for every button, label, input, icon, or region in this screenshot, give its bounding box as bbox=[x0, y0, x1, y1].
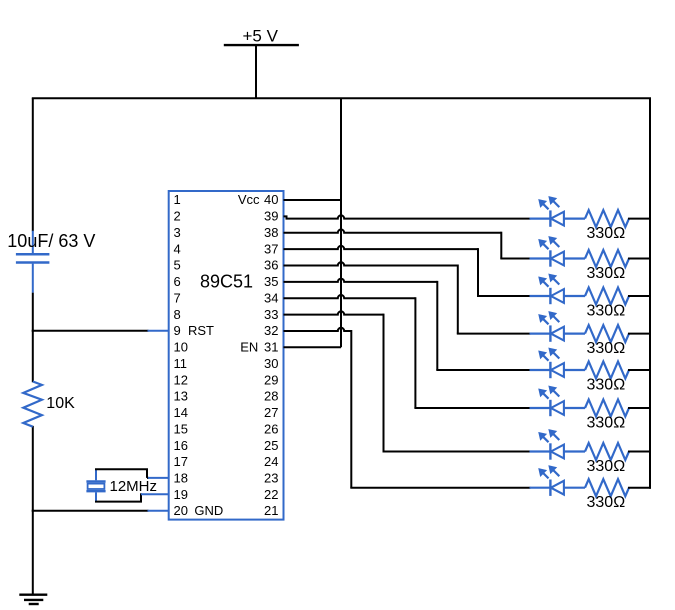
value label 330 ohm row 8 bbox=[587, 494, 626, 511]
wire pin 38 to LED D2 row bbox=[284, 229, 531, 258]
resistor R3 330 ohm bbox=[585, 288, 629, 305]
svg-text:3: 3 bbox=[174, 225, 181, 240]
svg-text:35: 35 bbox=[264, 274, 278, 289]
svg-text:330Ω: 330Ω bbox=[587, 303, 626, 320]
svg-text:25: 25 bbox=[264, 438, 278, 453]
svg-text:330Ω: 330Ω bbox=[587, 340, 626, 357]
wire left bus: rail to capacitor bbox=[32, 98, 34, 231]
svg-text:GND: GND bbox=[194, 503, 223, 518]
ground symbol bbox=[19, 595, 47, 604]
wire Vcc vertical (rail to EN) bbox=[340, 98, 342, 347]
resistor R7 330 ohm bbox=[585, 443, 629, 460]
svg-text:10uF/ 63 V: 10uF/ 63 V bbox=[7, 231, 95, 251]
value label 10uF/ 63 V bbox=[7, 231, 95, 251]
wire right bus (rail to row 8) bbox=[649, 98, 651, 489]
resistor R8 330 ohm bbox=[585, 479, 629, 496]
svg-text:28: 28 bbox=[264, 389, 278, 404]
wire resistor R8 to right bus bbox=[628, 487, 651, 489]
LED D6 bbox=[530, 386, 586, 416]
resistor R2 330 ohm bbox=[585, 250, 629, 267]
svg-text:12: 12 bbox=[174, 372, 188, 387]
svg-text:+5 V: +5 V bbox=[243, 27, 279, 46]
wire resistor R1 to right bus bbox=[628, 218, 651, 220]
power +5V symbol bbox=[224, 27, 299, 99]
svg-text:6: 6 bbox=[174, 274, 181, 289]
resistor R1 330 ohm bbox=[585, 210, 629, 227]
LED D7 bbox=[530, 430, 586, 460]
wire pin 36 to LED D4 row bbox=[284, 262, 531, 333]
svg-text:330Ω: 330Ω bbox=[587, 225, 626, 242]
svg-text:330Ω: 330Ω bbox=[587, 265, 626, 282]
svg-text:13: 13 bbox=[174, 389, 188, 404]
svg-text:37: 37 bbox=[264, 241, 278, 256]
wire resistor R7 to right bus bbox=[628, 451, 651, 453]
value label 330 ohm row 3 bbox=[587, 303, 626, 320]
U1 left pin numbers 1-20 bbox=[174, 192, 188, 518]
svg-text:31: 31 bbox=[264, 340, 278, 355]
svg-text:15: 15 bbox=[174, 421, 188, 436]
IC U1 89C51 body bbox=[169, 191, 284, 520]
svg-text:24: 24 bbox=[264, 454, 278, 469]
wire pin 35 to LED D5 row bbox=[284, 279, 531, 370]
LED D5 bbox=[530, 348, 586, 378]
value label 330 ohm row 4 bbox=[587, 340, 626, 357]
wire resistor R6 to right bus bbox=[628, 407, 651, 409]
wire resistor R3 to right bus bbox=[628, 295, 651, 297]
svg-text:19: 19 bbox=[174, 487, 188, 502]
svg-text:30: 30 bbox=[264, 356, 278, 371]
wire GND node to ground bbox=[32, 510, 34, 596]
wire pin 33 to LED D7 row bbox=[284, 311, 531, 451]
svg-text:4: 4 bbox=[174, 241, 181, 256]
svg-text:32: 32 bbox=[264, 323, 278, 338]
wire pin 39 to LED D1 row bbox=[284, 215, 531, 218]
wire pin 32 to LED D8 row bbox=[284, 328, 531, 488]
svg-text:36: 36 bbox=[264, 258, 278, 273]
wire resistor R2 to right bus bbox=[628, 258, 651, 260]
LED D3 bbox=[530, 274, 586, 304]
U1 pin label EN bbox=[240, 340, 258, 355]
value label 330 ohm row 2 bbox=[587, 265, 626, 282]
U1 pin label GND bbox=[194, 503, 223, 518]
wire +5V top rail bbox=[32, 97, 651, 99]
svg-text:16: 16 bbox=[174, 438, 188, 453]
svg-text:29: 29 bbox=[264, 372, 278, 387]
svg-text:330Ω: 330Ω bbox=[587, 415, 626, 432]
svg-text:26: 26 bbox=[264, 421, 278, 436]
svg-text:21: 21 bbox=[264, 503, 278, 518]
resistor R4 330 ohm bbox=[585, 325, 629, 342]
svg-text:39: 39 bbox=[264, 209, 278, 224]
svg-text:27: 27 bbox=[264, 405, 278, 420]
svg-text:10: 10 bbox=[174, 340, 188, 355]
svg-text:89C51: 89C51 bbox=[200, 272, 253, 292]
wire resistor R5 to right bus bbox=[628, 369, 651, 371]
wire crystal bottom to pin 19 bbox=[95, 494, 169, 501]
resistor R5 330 ohm bbox=[585, 362, 629, 379]
wire resistor 10K to GND node bbox=[32, 426, 34, 512]
svg-text:33: 33 bbox=[264, 307, 278, 322]
wire GND node to pin 20 bbox=[32, 510, 169, 512]
svg-text:1: 1 bbox=[174, 192, 181, 207]
crystal X1 12MHz bbox=[86, 469, 105, 501]
wire RST node to pin 9 bbox=[32, 330, 169, 332]
svg-text:40: 40 bbox=[264, 192, 278, 207]
U1 right pin numbers 40-21 bbox=[264, 192, 278, 518]
svg-text:330Ω: 330Ω bbox=[587, 377, 626, 394]
svg-text:11: 11 bbox=[174, 356, 188, 371]
value label 330 ohm row 6 bbox=[587, 415, 626, 432]
svg-text:7: 7 bbox=[174, 290, 181, 305]
svg-text:330Ω: 330Ω bbox=[587, 458, 626, 475]
value label 12MHz bbox=[110, 478, 158, 495]
svg-text:22: 22 bbox=[264, 487, 278, 502]
wire RST node to resistor 10K bbox=[32, 330, 34, 383]
svg-text:9: 9 bbox=[174, 323, 181, 338]
LED D2 bbox=[530, 237, 586, 267]
wire pin 37 to LED D3 row bbox=[284, 246, 531, 296]
svg-text:2: 2 bbox=[174, 209, 181, 224]
svg-text:8: 8 bbox=[174, 307, 181, 322]
LED D1 bbox=[530, 197, 586, 227]
svg-text:23: 23 bbox=[264, 471, 278, 486]
wire pin 31 EN bbox=[284, 346, 342, 348]
wire crystal top to pin 18 bbox=[95, 469, 169, 478]
wire pin 34 to LED D6 row bbox=[284, 295, 531, 408]
svg-text:17: 17 bbox=[174, 454, 188, 469]
value label 330 ohm row 7 bbox=[587, 458, 626, 475]
U1 label 89C51 bbox=[200, 272, 253, 292]
svg-text:12MHz: 12MHz bbox=[110, 478, 158, 495]
resistor R9 10K bbox=[23, 382, 42, 427]
resistor R6 330 ohm bbox=[585, 400, 629, 417]
value label 10K bbox=[46, 395, 75, 412]
value label 330 ohm row 5 bbox=[587, 377, 626, 394]
svg-text:Vcc: Vcc bbox=[238, 192, 260, 207]
wire capacitor to RST node bbox=[32, 293, 34, 332]
capacitor C1 10uF/63V bbox=[16, 231, 50, 293]
svg-text:38: 38 bbox=[264, 225, 278, 240]
LED D4 bbox=[530, 312, 586, 342]
U1 pin label Vcc bbox=[238, 192, 260, 207]
svg-text:5: 5 bbox=[174, 258, 181, 273]
svg-text:10K: 10K bbox=[46, 395, 75, 412]
svg-text:EN: EN bbox=[240, 340, 258, 355]
LED D8 bbox=[530, 466, 586, 496]
value label 330 ohm row 1 bbox=[587, 225, 626, 242]
svg-text:18: 18 bbox=[174, 471, 188, 486]
svg-text:20: 20 bbox=[174, 503, 188, 518]
U1 pin label RST bbox=[188, 323, 214, 338]
wire pin 40 Vcc bbox=[284, 199, 342, 201]
svg-text:330Ω: 330Ω bbox=[587, 494, 626, 511]
svg-text:14: 14 bbox=[174, 405, 188, 420]
svg-text:34: 34 bbox=[264, 290, 278, 305]
wire resistor R4 to right bus bbox=[628, 333, 651, 335]
svg-text:RST: RST bbox=[188, 323, 214, 338]
